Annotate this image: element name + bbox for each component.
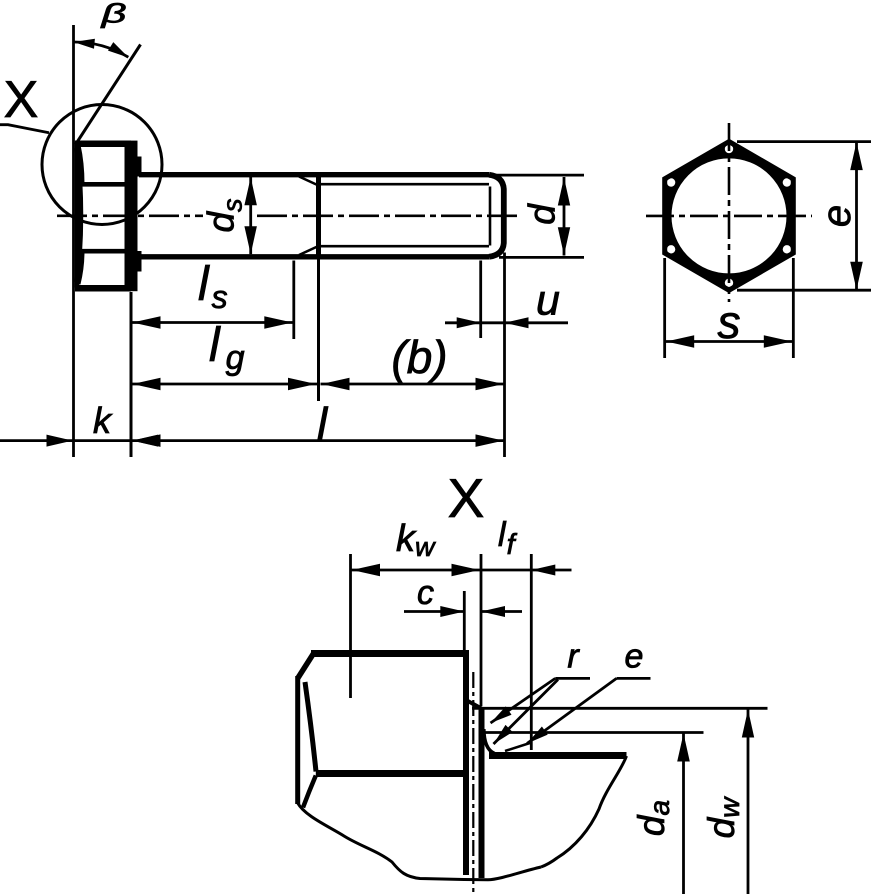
svg-text:d: d (522, 203, 563, 225)
svg-text:s: s (718, 296, 741, 348)
detail head face line (463, 651, 469, 876)
dimension l_g (131, 383, 317, 386)
svg-text:β: β (100, 0, 126, 29)
bolt end chamfer outline (489, 175, 504, 257)
thread runout lower (299, 246, 319, 255)
dimension c (404, 610, 464, 613)
head upper facet chamfer arc (79, 145, 83, 184)
detail head top-left chamfer (298, 654, 314, 679)
svg-text:e: e (625, 638, 644, 676)
hex corner chamfer notches (725, 145, 733, 153)
svg-text:X: X (448, 467, 485, 529)
dimension d_a (682, 734, 685, 894)
shank lower line (139, 254, 489, 259)
svg-text:X: X (4, 71, 39, 129)
leader line e (617, 677, 651, 680)
dimension e (855, 142, 858, 291)
beta angle arc with arrows (74, 42, 129, 57)
detail head left edge (295, 676, 300, 804)
under-head fillet arc r (484, 729, 495, 754)
svg-text:e: e (815, 205, 859, 227)
thread minor line lower (319, 245, 490, 248)
extension line d_a (484, 731, 704, 734)
svg-text:k: k (93, 400, 113, 441)
dimension k and l line (0, 439, 505, 442)
extension lines for d at bolt end (496, 174, 584, 177)
bolt head side view (75, 142, 80, 288)
dimension l arrows (133, 434, 161, 447)
clamped plate top surface (489, 752, 627, 759)
leader line from X to detail circle (0, 125, 49, 133)
hex facet line upper (head) (81, 182, 127, 187)
dimension s (665, 340, 794, 343)
break line freehand bottom (298, 803, 541, 880)
extension line c left (washer face) (463, 591, 466, 656)
detail lower facet arc (303, 776, 316, 808)
extension line l_f right (B) (530, 554, 533, 750)
detail washer boss chamfer (466, 700, 482, 709)
detail head top edge (311, 650, 469, 657)
chamfer circle on hex head (669, 156, 789, 276)
hex facet line lower (head) (81, 249, 127, 254)
svg-text:l: l (317, 398, 329, 450)
svg-text:(b): (b) (391, 331, 447, 383)
extension line l_s end (292, 261, 295, 340)
center line bolt axis (57, 215, 203, 218)
extension line u (thread end) (479, 261, 482, 339)
detail circle X around bolt head (42, 105, 162, 225)
dimension (b) (321, 383, 505, 386)
extension lines e (737, 140, 871, 143)
dimension u (445, 321, 481, 324)
extension line bearing plane (A) (480, 554, 483, 706)
break line freehand plate right (541, 756, 627, 867)
extension lines s (663, 258, 666, 358)
center line hex vertical (728, 123, 731, 302)
dimension l_s (131, 321, 294, 324)
thread minor line upper (319, 183, 490, 186)
extension line d_w (472, 707, 768, 710)
wire extension line head outer face (k / beta reference) (72, 25, 75, 457)
svg-text:u: u (536, 277, 560, 325)
beta angle slant line (76, 45, 141, 145)
dimension d_s (249, 177, 252, 254)
dimension d_w (747, 710, 750, 894)
extension line k_w left (349, 554, 352, 698)
bolt end chamfer circle edge line (489, 187, 492, 246)
leader lines r (555, 677, 590, 680)
hexagon outline stroke (665, 142, 794, 291)
detail bearing face line (479, 708, 485, 879)
extension line bolt end (l, b, u) (503, 253, 506, 458)
svg-text:r: r (567, 638, 580, 676)
svg-text:c: c (417, 574, 434, 612)
head lower facet chamfer arc (79, 251, 83, 284)
center line hex horizontal (646, 215, 812, 218)
thread start line (316, 172, 321, 259)
thread runout upper (299, 177, 319, 186)
dimension k_w (351, 569, 482, 572)
shank upper line (139, 172, 489, 177)
plate hole chamfer e (505, 743, 532, 752)
detail upper facet arc (305, 682, 316, 772)
detail facet line (316, 770, 466, 777)
extension line bearing face (k left ... l left) (130, 292, 133, 457)
extension line l_g / thread start (317, 259, 320, 401)
dimension d (563, 177, 566, 256)
dimension l_f (481, 569, 531, 572)
hexagon head outline filled (665, 142, 794, 291)
detail washer face dash-dot line (472, 672, 474, 894)
